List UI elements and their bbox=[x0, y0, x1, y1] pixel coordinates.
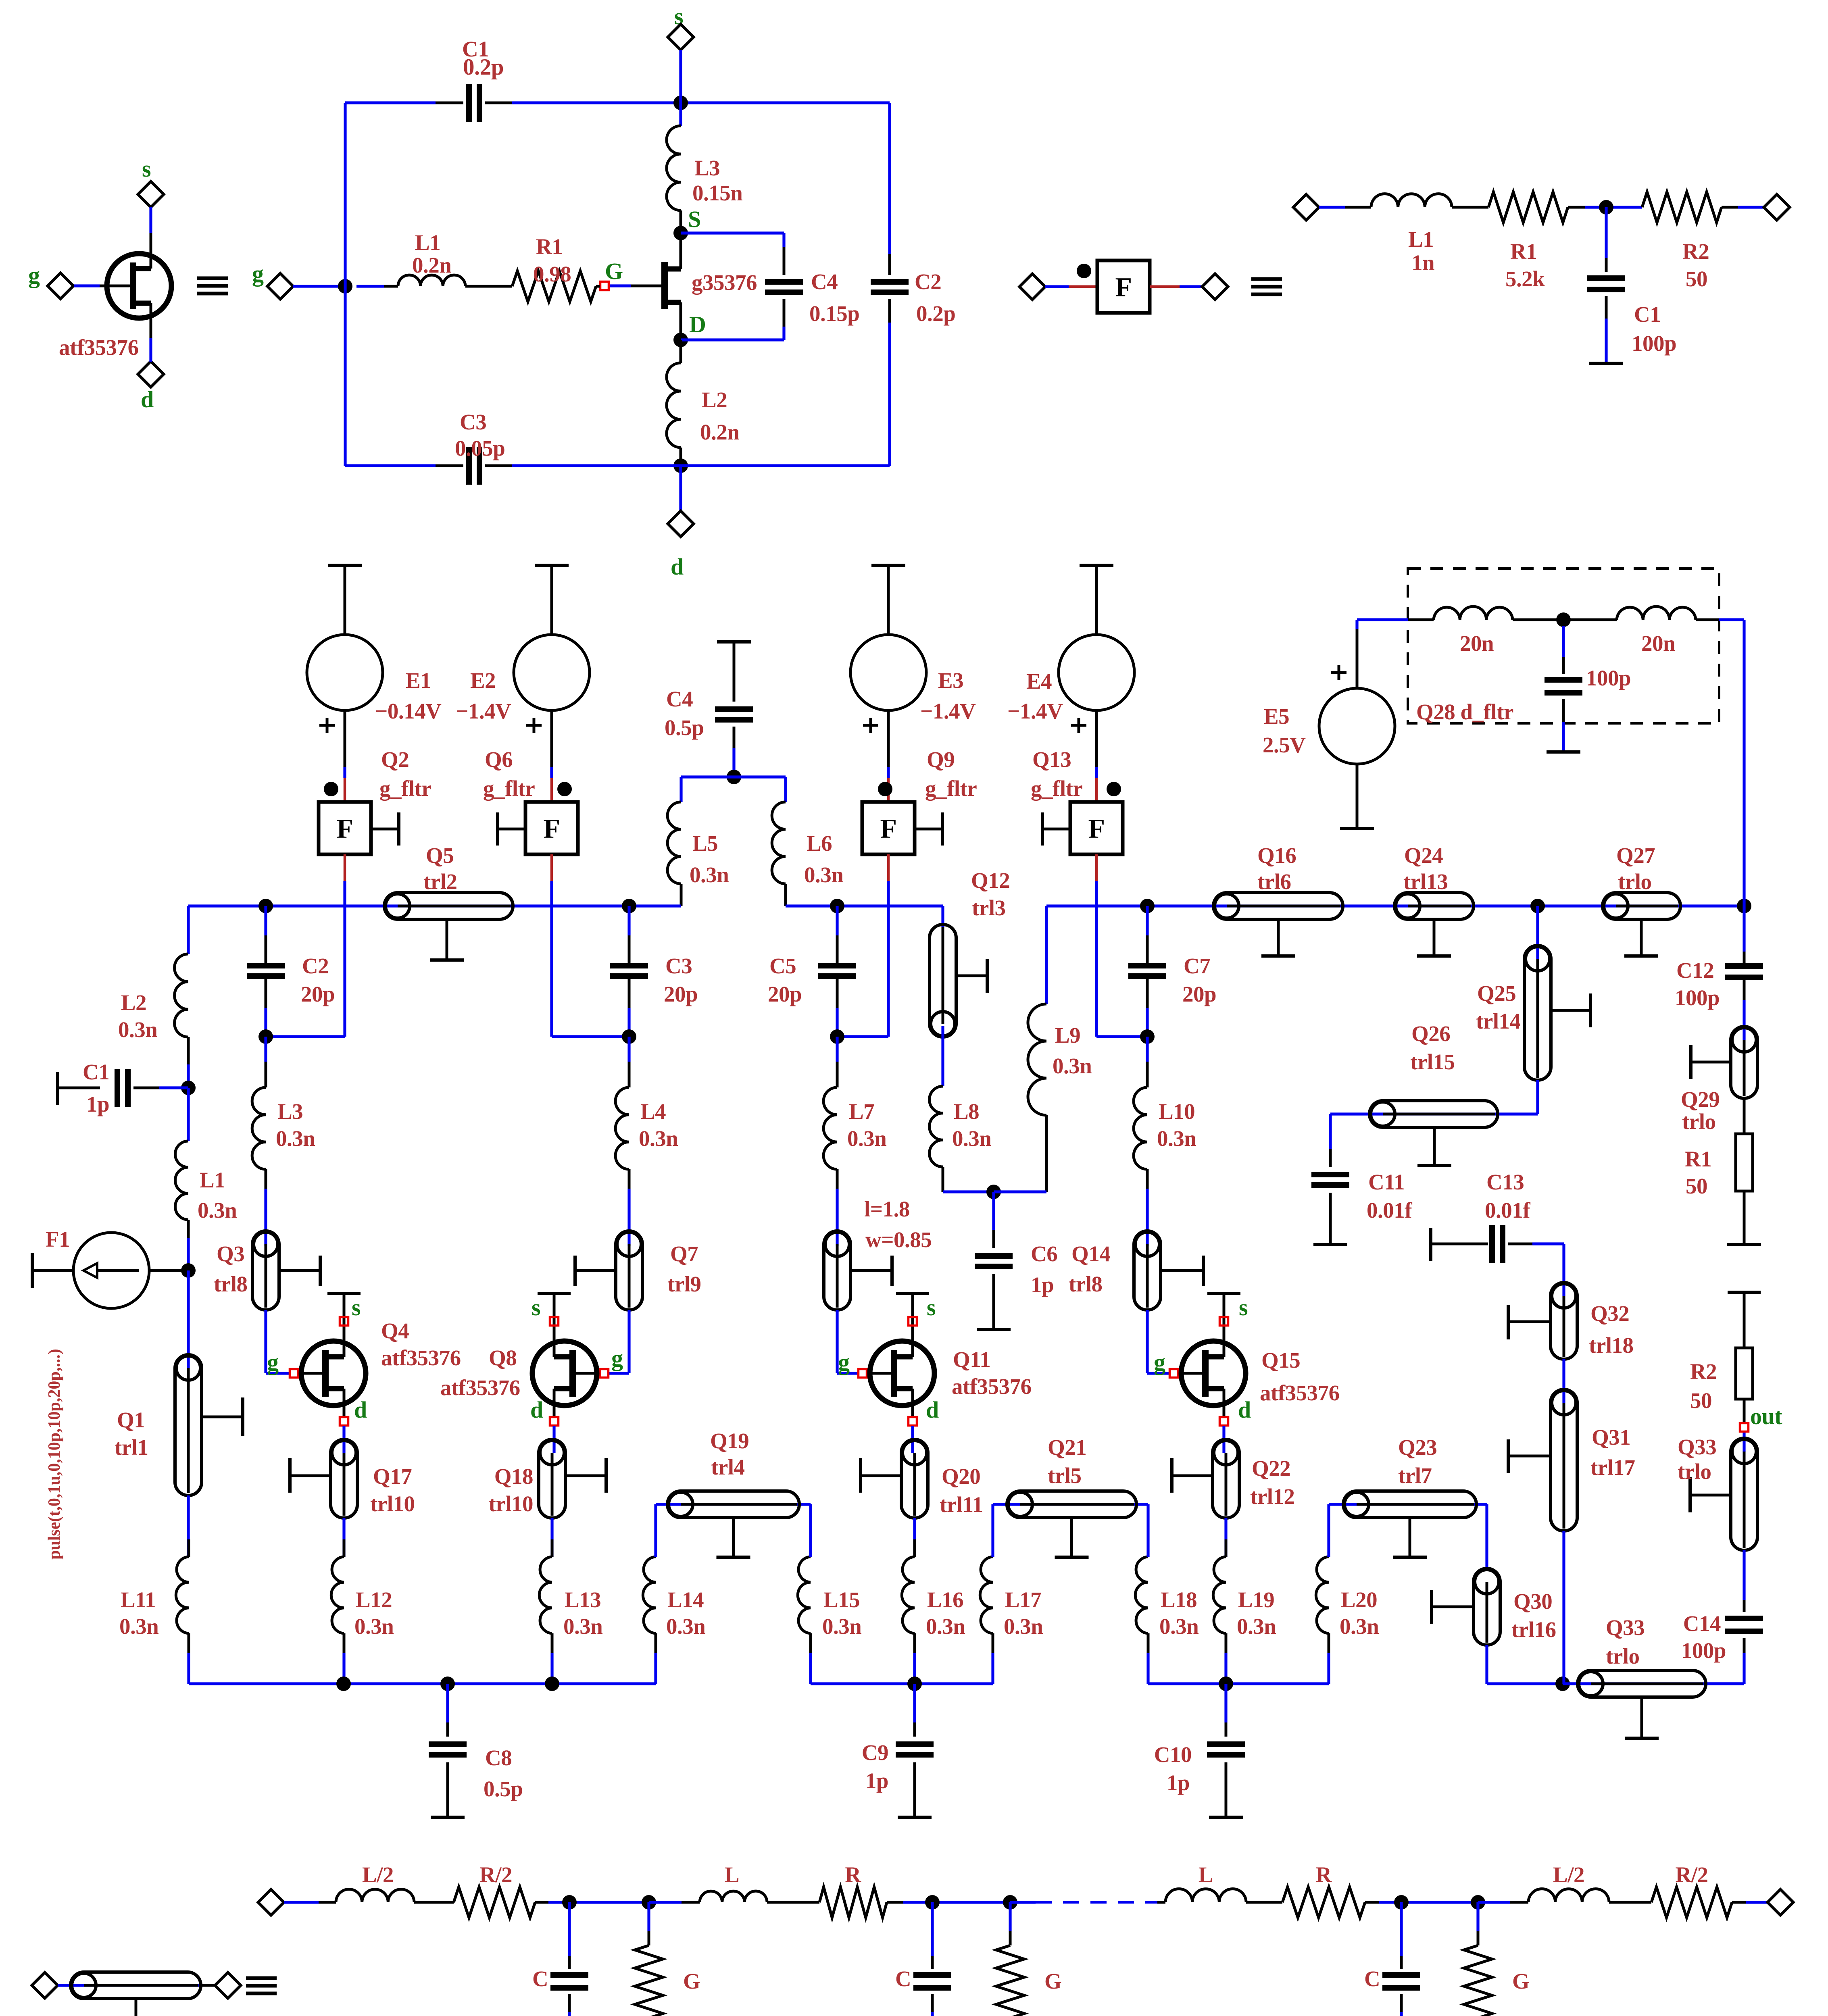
svg-text:L/2: L/2 bbox=[1553, 1862, 1584, 1887]
svg-text:0.98: 0.98 bbox=[533, 262, 571, 286]
svg-text:C5: C5 bbox=[769, 954, 796, 978]
svg-text:L9: L9 bbox=[1055, 1023, 1080, 1048]
svg-text:100p: 100p bbox=[1586, 666, 1631, 690]
svg-text:20n: 20n bbox=[1460, 631, 1494, 656]
svg-text:0.3n: 0.3n bbox=[639, 1126, 678, 1151]
svg-text:0.2p: 0.2p bbox=[916, 301, 955, 326]
svg-text:C13: C13 bbox=[1486, 1170, 1524, 1194]
svg-text:trlo: trlo bbox=[1682, 1109, 1716, 1134]
svg-text:L2: L2 bbox=[121, 990, 146, 1015]
svg-text:trl3: trl3 bbox=[972, 896, 1006, 920]
svg-text:pulse(t,0,1u,0,10p,10p,20p,...: pulse(t,0,1u,0,10p,10p,20p,...) bbox=[45, 1349, 64, 1560]
svg-text:g35376: g35376 bbox=[692, 270, 757, 295]
svg-text:R1: R1 bbox=[1510, 239, 1537, 264]
svg-text:atf35376: atf35376 bbox=[1260, 1381, 1340, 1405]
svg-text:trl5: trl5 bbox=[1048, 1463, 1082, 1488]
svg-text:R2: R2 bbox=[1690, 1359, 1717, 1384]
svg-text:R: R bbox=[845, 1862, 861, 1887]
svg-text:Q12: Q12 bbox=[971, 868, 1010, 893]
svg-text:S: S bbox=[688, 206, 701, 232]
svg-text:Q5: Q5 bbox=[426, 843, 454, 868]
svg-text:s: s bbox=[1239, 1294, 1248, 1320]
svg-text:s: s bbox=[927, 1294, 936, 1320]
svg-text:trl2: trl2 bbox=[423, 869, 457, 894]
svg-text:L1: L1 bbox=[1408, 227, 1434, 252]
svg-text:Q23: Q23 bbox=[1398, 1435, 1437, 1460]
svg-text:F: F bbox=[336, 813, 353, 844]
svg-text:0.05p: 0.05p bbox=[455, 436, 505, 460]
svg-text:L16: L16 bbox=[927, 1587, 963, 1612]
svg-text:F1: F1 bbox=[46, 1227, 70, 1252]
svg-text:C12: C12 bbox=[1676, 958, 1714, 983]
svg-text:Q14: Q14 bbox=[1071, 1241, 1110, 1266]
svg-text:L/2: L/2 bbox=[362, 1862, 394, 1887]
svg-text:−1.4V: −1.4V bbox=[456, 699, 511, 723]
svg-text:20p: 20p bbox=[1182, 982, 1216, 1006]
svg-text:g: g bbox=[28, 262, 40, 288]
svg-text:C8: C8 bbox=[485, 1745, 512, 1770]
svg-text:1n: 1n bbox=[1411, 250, 1434, 275]
svg-text:Q24: Q24 bbox=[1404, 843, 1443, 868]
svg-text:0.3n: 0.3n bbox=[847, 1126, 886, 1151]
svg-text:L15: L15 bbox=[823, 1587, 860, 1612]
svg-text:L18: L18 bbox=[1161, 1587, 1197, 1612]
svg-text:g: g bbox=[611, 1345, 623, 1371]
svg-text:L14: L14 bbox=[667, 1587, 704, 1612]
svg-text:C3: C3 bbox=[665, 954, 692, 978]
svg-text:trlo: trlo bbox=[1618, 869, 1652, 894]
svg-text:0.3n: 0.3n bbox=[1159, 1614, 1199, 1639]
svg-text:s: s bbox=[352, 1294, 361, 1320]
svg-text:trl6: trl6 bbox=[1257, 869, 1291, 894]
svg-text:g_fltr: g_fltr bbox=[379, 776, 431, 801]
svg-text:atf35376: atf35376 bbox=[381, 1345, 461, 1370]
svg-text:Q18: Q18 bbox=[494, 1464, 533, 1489]
svg-text:g_fltr: g_fltr bbox=[1031, 776, 1082, 801]
svg-text:D: D bbox=[689, 311, 706, 337]
svg-text:Q31: Q31 bbox=[1592, 1425, 1630, 1450]
svg-text:0.3n: 0.3n bbox=[666, 1614, 705, 1639]
svg-text:0.2n: 0.2n bbox=[412, 253, 451, 277]
svg-text:g: g bbox=[267, 1349, 279, 1375]
svg-text:l=1.8: l=1.8 bbox=[864, 1197, 910, 1221]
svg-text:g_fltr: g_fltr bbox=[925, 776, 977, 801]
svg-text:0.5p: 0.5p bbox=[484, 1776, 523, 1801]
svg-text:Q25: Q25 bbox=[1477, 981, 1516, 1006]
svg-text:d: d bbox=[671, 554, 684, 580]
svg-text:F: F bbox=[1088, 813, 1105, 844]
svg-text:L2: L2 bbox=[702, 387, 727, 412]
svg-text:d: d bbox=[530, 1397, 543, 1423]
svg-text:trl9: trl9 bbox=[667, 1272, 701, 1296]
svg-text:20n: 20n bbox=[1641, 631, 1675, 656]
svg-text:L4: L4 bbox=[640, 1099, 666, 1124]
svg-text:C7: C7 bbox=[1184, 954, 1210, 978]
svg-text:d: d bbox=[141, 386, 154, 412]
svg-text:20p: 20p bbox=[768, 982, 802, 1006]
svg-text:Q28 d_fltr: Q28 d_fltr bbox=[1416, 700, 1513, 724]
svg-text:Q7: Q7 bbox=[670, 1241, 698, 1266]
svg-text:Q4: Q4 bbox=[381, 1318, 409, 1343]
svg-text:C11: C11 bbox=[1368, 1170, 1405, 1194]
svg-text:Q20: Q20 bbox=[942, 1464, 980, 1489]
svg-text:atf35376: atf35376 bbox=[59, 335, 139, 360]
svg-text:0.3n: 0.3n bbox=[804, 862, 843, 887]
svg-text:50: 50 bbox=[1686, 267, 1707, 291]
svg-text:trl10: trl10 bbox=[488, 1491, 533, 1516]
svg-text:L3: L3 bbox=[277, 1099, 303, 1124]
svg-text:trl12: trl12 bbox=[1250, 1484, 1295, 1509]
svg-text:L5: L5 bbox=[692, 831, 718, 856]
svg-text:1p: 1p bbox=[865, 1768, 888, 1793]
svg-text:L: L bbox=[725, 1862, 739, 1887]
svg-text:L12: L12 bbox=[356, 1587, 392, 1612]
svg-text:100p: 100p bbox=[1632, 331, 1676, 356]
svg-text:20p: 20p bbox=[301, 982, 335, 1006]
svg-text:Q6: Q6 bbox=[485, 747, 513, 772]
svg-text:E4: E4 bbox=[1026, 669, 1052, 694]
svg-text:C10: C10 bbox=[1154, 1742, 1192, 1767]
svg-text:1p: 1p bbox=[1031, 1272, 1054, 1297]
svg-text:trl16: trl16 bbox=[1511, 1617, 1556, 1642]
svg-text:0.3n: 0.3n bbox=[563, 1614, 602, 1639]
svg-text:0.3n: 0.3n bbox=[1340, 1614, 1379, 1639]
svg-text:C2: C2 bbox=[302, 954, 329, 978]
svg-text:L20: L20 bbox=[1341, 1587, 1377, 1612]
svg-text:trl10: trl10 bbox=[370, 1491, 415, 1516]
svg-text:−1.4V: −1.4V bbox=[1007, 699, 1063, 723]
svg-text:Q33: Q33 bbox=[1678, 1435, 1716, 1459]
svg-text:Q9: Q9 bbox=[927, 747, 955, 772]
svg-text:Q1: Q1 bbox=[117, 1408, 145, 1432]
svg-text:F: F bbox=[1115, 272, 1132, 302]
svg-text:L7: L7 bbox=[849, 1099, 874, 1124]
svg-text:1p: 1p bbox=[1167, 1770, 1190, 1795]
svg-text:R1: R1 bbox=[536, 234, 563, 259]
svg-text:C: C bbox=[1364, 1966, 1380, 1991]
svg-text:L10: L10 bbox=[1159, 1099, 1195, 1124]
svg-text:0.3n: 0.3n bbox=[952, 1126, 991, 1151]
svg-text:Q33: Q33 bbox=[1606, 1615, 1645, 1640]
svg-text:1p: 1p bbox=[86, 1092, 109, 1116]
svg-text:C1: C1 bbox=[83, 1060, 109, 1084]
svg-text:R: R bbox=[1315, 1862, 1332, 1887]
svg-text:d: d bbox=[926, 1397, 939, 1423]
svg-text:50: 50 bbox=[1690, 1388, 1712, 1413]
svg-text:C4: C4 bbox=[666, 687, 693, 711]
svg-text:Q15: Q15 bbox=[1261, 1348, 1300, 1372]
svg-text:s: s bbox=[142, 156, 151, 182]
svg-text:E2: E2 bbox=[470, 668, 496, 693]
svg-text:Q19: Q19 bbox=[710, 1429, 749, 1453]
svg-text:0.5p: 0.5p bbox=[665, 715, 704, 740]
svg-text:L1: L1 bbox=[200, 1168, 225, 1192]
svg-text:trl1: trl1 bbox=[115, 1435, 148, 1460]
svg-text:Q22: Q22 bbox=[1252, 1456, 1290, 1481]
svg-text:trl8: trl8 bbox=[214, 1272, 248, 1296]
svg-text:Q21: Q21 bbox=[1048, 1435, 1086, 1460]
svg-text:R/2: R/2 bbox=[1676, 1862, 1708, 1887]
svg-text:0.01f: 0.01f bbox=[1485, 1198, 1530, 1223]
svg-text:0.2p: 0.2p bbox=[463, 54, 504, 80]
svg-text:0.3n: 0.3n bbox=[1053, 1054, 1092, 1078]
svg-text:C4: C4 bbox=[811, 269, 838, 294]
svg-text:E1: E1 bbox=[406, 668, 431, 693]
svg-text:G: G bbox=[1512, 1969, 1529, 1993]
svg-text:2.5V: 2.5V bbox=[1263, 733, 1306, 757]
svg-text:C1: C1 bbox=[1634, 302, 1661, 327]
svg-text:d: d bbox=[1238, 1397, 1251, 1423]
svg-text:20p: 20p bbox=[664, 982, 698, 1006]
svg-text:g_fltr: g_fltr bbox=[483, 776, 535, 801]
svg-text:atf35376: atf35376 bbox=[952, 1374, 1032, 1399]
svg-text:Q11: Q11 bbox=[953, 1347, 990, 1372]
svg-text:Q26: Q26 bbox=[1411, 1021, 1450, 1046]
svg-text:trl4: trl4 bbox=[711, 1455, 745, 1479]
svg-text:w=0.85: w=0.85 bbox=[865, 1227, 932, 1252]
svg-text:trlo: trlo bbox=[1678, 1459, 1711, 1484]
svg-text:0.3n: 0.3n bbox=[926, 1614, 965, 1639]
svg-text:d: d bbox=[354, 1397, 367, 1423]
svg-text:G: G bbox=[605, 258, 623, 284]
svg-text:trl14: trl14 bbox=[1476, 1009, 1521, 1033]
svg-text:C14: C14 bbox=[1683, 1611, 1721, 1636]
svg-text:0.3n: 0.3n bbox=[1237, 1614, 1276, 1639]
svg-text:100p: 100p bbox=[1675, 985, 1720, 1010]
svg-text:Q13: Q13 bbox=[1032, 747, 1071, 772]
svg-text:trl7: trl7 bbox=[1398, 1463, 1432, 1488]
svg-text:−1.4V: −1.4V bbox=[920, 699, 976, 723]
svg-text:L: L bbox=[1199, 1862, 1213, 1887]
svg-text:Q32: Q32 bbox=[1590, 1301, 1629, 1326]
svg-text:Q17: Q17 bbox=[373, 1464, 412, 1489]
svg-text:−0.14V: −0.14V bbox=[375, 699, 442, 723]
svg-text:out: out bbox=[1750, 1403, 1782, 1429]
svg-text:trl11: trl11 bbox=[940, 1492, 983, 1517]
svg-text:0.15n: 0.15n bbox=[692, 181, 742, 205]
svg-text:atf35376: atf35376 bbox=[440, 1375, 520, 1400]
svg-text:L19: L19 bbox=[1238, 1587, 1274, 1612]
svg-text:trl18: trl18 bbox=[1589, 1333, 1634, 1358]
svg-text:G: G bbox=[1044, 1969, 1061, 1993]
svg-text:s: s bbox=[532, 1294, 540, 1320]
svg-text:Q30: Q30 bbox=[1513, 1589, 1552, 1614]
svg-text:Q29: Q29 bbox=[1681, 1087, 1720, 1112]
svg-text:L3: L3 bbox=[694, 156, 720, 180]
svg-text:R/2: R/2 bbox=[479, 1862, 512, 1887]
svg-text:E3: E3 bbox=[938, 668, 963, 693]
svg-text:50: 50 bbox=[1686, 1174, 1707, 1198]
svg-text:0.3n: 0.3n bbox=[276, 1126, 315, 1151]
svg-text:0.3n: 0.3n bbox=[1157, 1126, 1196, 1151]
svg-text:100p: 100p bbox=[1681, 1638, 1726, 1663]
svg-text:0.2n: 0.2n bbox=[700, 420, 739, 444]
svg-text:0.3n: 0.3n bbox=[119, 1614, 158, 1639]
svg-text:g: g bbox=[838, 1349, 850, 1375]
svg-text:g: g bbox=[252, 260, 264, 287]
svg-text:Q2: Q2 bbox=[381, 747, 409, 772]
svg-text:0.3n: 0.3n bbox=[118, 1017, 157, 1042]
svg-text:Q3: Q3 bbox=[217, 1241, 244, 1266]
svg-text:0.3n: 0.3n bbox=[822, 1614, 861, 1639]
svg-text:g: g bbox=[1154, 1349, 1165, 1375]
svg-text:E5: E5 bbox=[1264, 704, 1289, 729]
svg-text:0.3n: 0.3n bbox=[690, 862, 729, 887]
svg-text:L13: L13 bbox=[565, 1587, 601, 1612]
svg-text:trl15: trl15 bbox=[1410, 1050, 1455, 1074]
svg-text:L6: L6 bbox=[807, 831, 832, 856]
svg-text:5.2k: 5.2k bbox=[1505, 267, 1545, 291]
svg-text:trl17: trl17 bbox=[1590, 1455, 1635, 1480]
svg-text:0.3n: 0.3n bbox=[1004, 1614, 1043, 1639]
svg-text:Q27: Q27 bbox=[1616, 843, 1655, 868]
svg-text:G: G bbox=[683, 1969, 700, 1993]
svg-text:R1: R1 bbox=[1685, 1147, 1711, 1171]
svg-text:Q8: Q8 bbox=[489, 1345, 517, 1370]
svg-text:L11: L11 bbox=[121, 1587, 156, 1612]
svg-text:trl8: trl8 bbox=[1069, 1272, 1103, 1296]
svg-text:C2: C2 bbox=[915, 269, 941, 294]
svg-text:trlo: trlo bbox=[1606, 1644, 1640, 1668]
svg-text:Q16: Q16 bbox=[1257, 843, 1296, 868]
svg-text:L17: L17 bbox=[1005, 1587, 1041, 1612]
svg-text:L8: L8 bbox=[954, 1099, 979, 1124]
svg-text:R2: R2 bbox=[1682, 239, 1709, 264]
svg-text:0.01f: 0.01f bbox=[1367, 1198, 1412, 1223]
svg-text:0.15p: 0.15p bbox=[809, 301, 859, 326]
svg-text:0.3n: 0.3n bbox=[198, 1198, 237, 1223]
svg-text:L1: L1 bbox=[415, 230, 440, 255]
svg-text:C: C bbox=[532, 1966, 548, 1991]
svg-text:trl13: trl13 bbox=[1403, 869, 1448, 894]
svg-text:0.3n: 0.3n bbox=[354, 1614, 394, 1639]
svg-text:C3: C3 bbox=[460, 410, 486, 434]
svg-text:C6: C6 bbox=[1031, 1241, 1057, 1266]
svg-text:C9: C9 bbox=[862, 1740, 888, 1765]
svg-text:C: C bbox=[895, 1966, 911, 1991]
svg-text:F: F bbox=[880, 813, 896, 844]
svg-text:F: F bbox=[543, 813, 560, 844]
